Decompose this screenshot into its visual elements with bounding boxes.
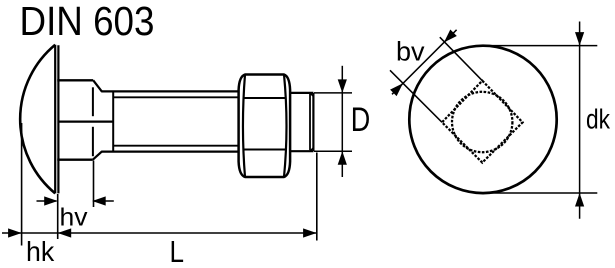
dk dimension line [579,22,581,219]
bolt tip extension line [316,153,318,241]
bv extension line from square top corner [440,37,483,80]
bolt tip bevel top [310,93,313,96]
D arrow top [338,79,347,93]
svg-text:dk: dk [586,104,611,135]
nut right facet curve [284,75,287,178]
hv dimension right arrow [93,200,114,202]
bolt end top line [290,92,313,94]
svg-text:hv: hv [60,204,89,232]
thread inner top line [113,96,240,98]
dk arrow top (pointing down) [575,32,584,46]
nut chamfer line upper [244,97,286,99]
neck top chamfer [93,80,102,91]
dk arrow bottom (pointing up) [575,193,584,207]
bv extension line from square left corner [390,70,442,122]
shank outer top line [101,90,240,92]
bv arrow lower (pointing NE) [390,83,403,96]
hidden square neck (dotted) [442,81,523,163]
head dome arc [20,45,55,194]
neck end extension line [93,161,95,208]
front view head circle [409,46,556,193]
head face line right [57,45,59,193]
nut outline [239,75,291,178]
svg-text:hk: hk [26,236,54,267]
shank outer bottom line [101,150,240,152]
D extension line top [314,92,352,94]
dk extension line bottom [483,192,597,194]
bv dimension line [392,30,457,95]
bolt tip chamfer line [309,94,311,150]
bottom dimension line hk + L [2,232,317,234]
square neck top edge [57,79,93,81]
bolt end bottom line [290,150,313,152]
svg-text:DIN 603: DIN 603 [20,0,155,44]
svg-text:D: D [351,101,371,139]
bolt tip bevel bottom [310,148,313,151]
dk extension line top [483,45,597,47]
L right arrow (pointing right at bolt tip) [303,228,317,237]
head face extension line [57,194,59,239]
nut chamfer line lower [244,149,286,151]
neck end vertical line [112,91,114,151]
L left arrow (pointing left at face line) [58,228,71,237]
hv dimension left arrow [37,200,57,202]
bolt tip edge [312,93,314,151]
D dimension line [341,66,343,177]
hk arrow (outside, pointing right at head-left) [8,228,22,237]
nut left facet curve [243,75,245,178]
bv arrow upper (pointing SW) [444,30,457,43]
neck corner edge dash lower [92,127,94,156]
square neck bottom edge [57,159,93,161]
D arrow bottom [338,151,347,165]
neck corner edge dash upper [92,87,94,116]
hidden shank circle (dotted) [452,92,512,152]
head face line left [54,45,56,194]
neck mid line [58,120,113,122]
svg-text:bv: bv [396,37,425,67]
thread inner bottom line [113,145,240,147]
svg-text:L: L [170,235,185,268]
D extension line bottom [314,150,352,152]
neck bottom chamfer [93,152,102,160]
head left extension line [21,123,23,246]
